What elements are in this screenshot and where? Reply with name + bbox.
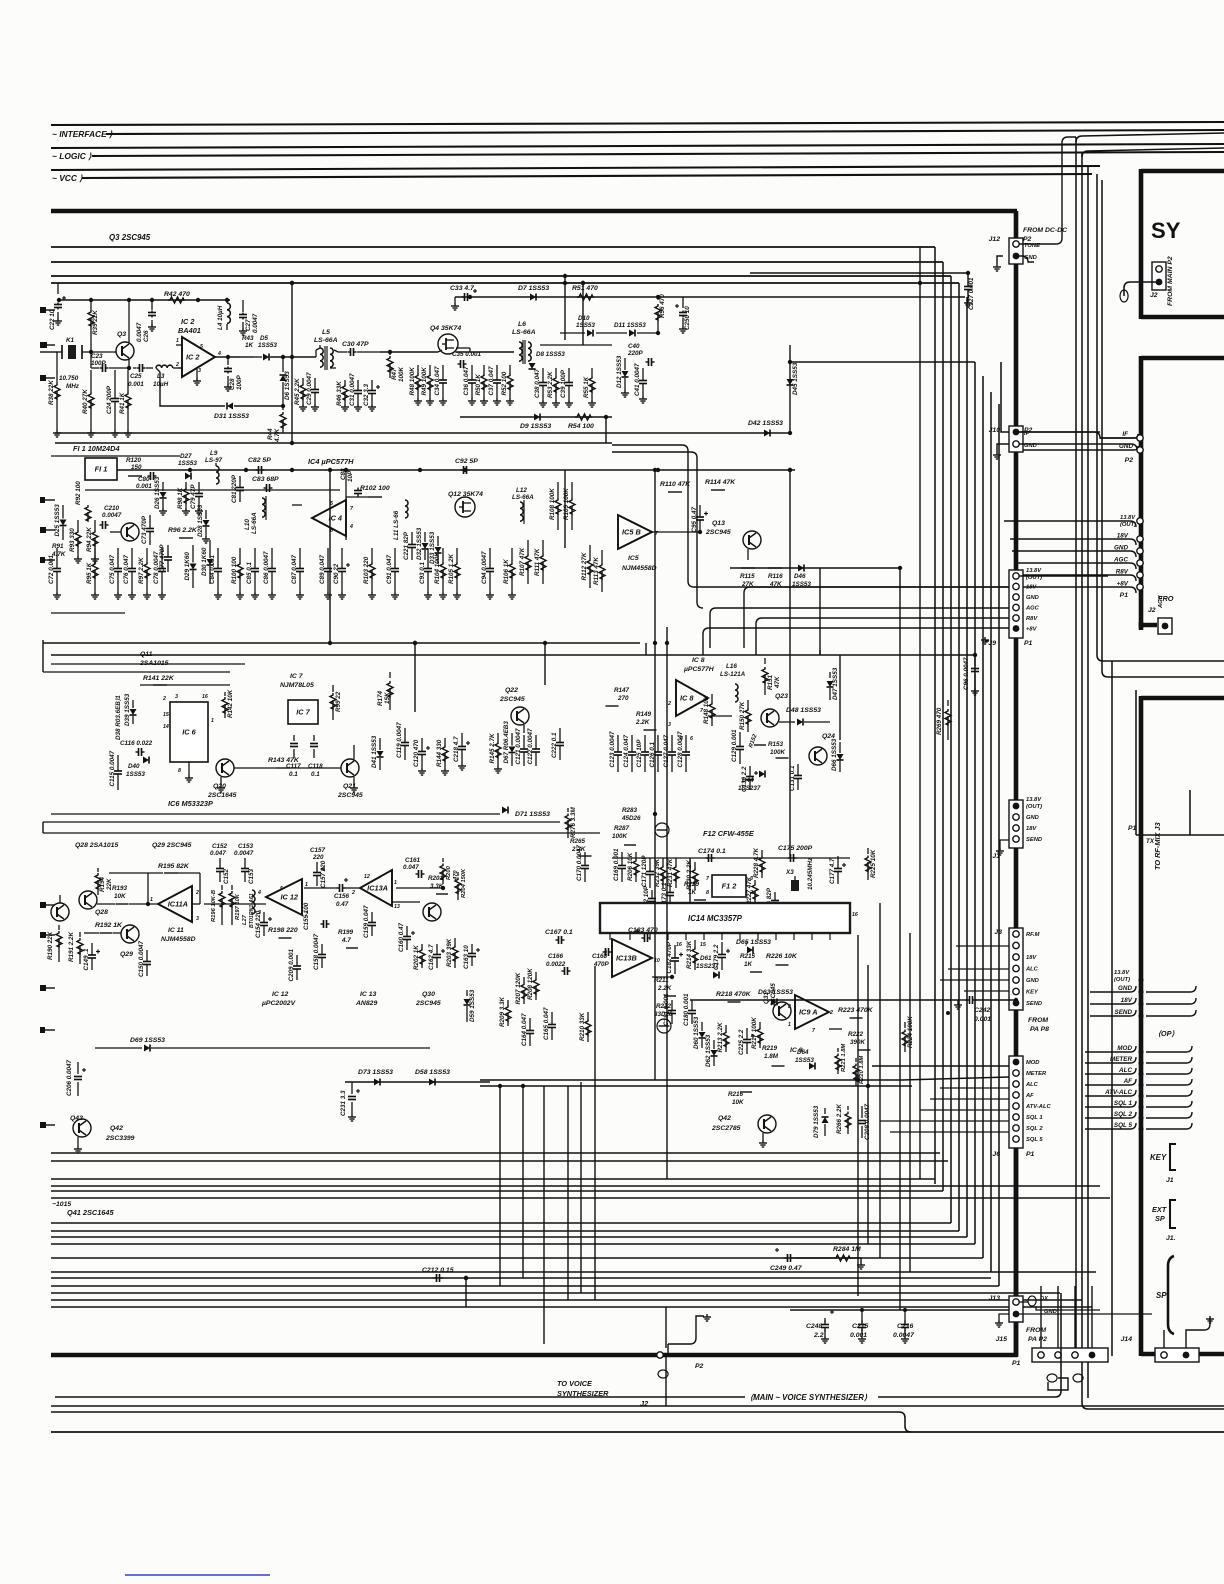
svg-text:MOD: MOD bbox=[1117, 1045, 1132, 1052]
svg-text:C94 0.0047: C94 0.0047 bbox=[481, 551, 488, 584]
svg-text:IC5: IC5 bbox=[628, 555, 639, 562]
svg-text:C210: C210 bbox=[104, 505, 120, 512]
svg-text:GND: GND bbox=[1118, 985, 1132, 992]
svg-text:1SS53: 1SS53 bbox=[178, 460, 197, 467]
svg-text:C26: C26 bbox=[143, 330, 150, 342]
transistor Q11 2SA1015 bbox=[121, 523, 139, 541]
capacitor C72 0.001 bbox=[56, 548, 58, 568]
resistor R200 470 bbox=[442, 858, 444, 862]
svg-text:100K: 100K bbox=[612, 833, 628, 840]
svg-text:1: 1 bbox=[305, 882, 308, 888]
svg-text:LS-121A: LS-121A bbox=[720, 671, 746, 678]
wire bottom bus 15 bbox=[51, 1306, 1092, 1308]
svg-text:D11 1SS53: D11 1SS53 bbox=[614, 322, 646, 329]
svg-text:IC 12: IC 12 bbox=[272, 991, 289, 998]
svg-text:2SC945: 2SC945 bbox=[705, 529, 731, 536]
wire to C227 bbox=[750, 272, 968, 274]
svg-text:SQL 5: SQL 5 bbox=[1114, 1122, 1133, 1129]
svg-text:0.0047: 0.0047 bbox=[252, 313, 259, 333]
wire lower bus lines bbox=[51, 612, 125, 614]
resistor R196 10K-B bbox=[221, 885, 223, 890]
capacitor C177 4.7 bbox=[837, 856, 839, 868]
op-amp IC9A bbox=[795, 995, 829, 1029]
svg-text:LS-66A: LS-66A bbox=[512, 329, 536, 336]
svg-text:R144 330: R144 330 bbox=[436, 739, 443, 767]
svg-text:2.2K: 2.2K bbox=[635, 719, 650, 726]
svg-text:R201: R201 bbox=[428, 875, 444, 882]
svg-text:R94 22K: R94 22K bbox=[86, 527, 93, 552]
svg-text:18V: 18V bbox=[1121, 997, 1133, 1004]
wire 1310 bbox=[790, 1309, 1009, 1311]
svg-text:Q29: Q29 bbox=[120, 951, 133, 958]
svg-text:IC 12: IC 12 bbox=[280, 893, 298, 902]
svg-text:C218 4.7: C218 4.7 bbox=[453, 736, 460, 762]
diode D59 1SS53 bbox=[466, 990, 468, 996]
svg-text:D6 1SS53: D6 1SS53 bbox=[284, 371, 291, 400]
svg-text:D45 1SS53: D45 1SS53 bbox=[792, 362, 799, 395]
svg-text:2: 2 bbox=[162, 696, 166, 702]
capacitor C76 0.047 bbox=[131, 548, 133, 568]
svg-text:R92 100: R92 100 bbox=[75, 481, 82, 505]
wire vnet 19 bbox=[543, 1086, 545, 1344]
capacitor C95 0.47 bbox=[699, 505, 701, 517]
wire vnet 13 bbox=[879, 903, 881, 1258]
svg-text:R55 1K: R55 1K bbox=[583, 376, 590, 398]
svg-text:1.8M: 1.8M bbox=[764, 1053, 779, 1060]
wire J9 pin left wires bbox=[744, 587, 1009, 648]
capacitor C38 0.047 bbox=[542, 368, 544, 382]
svg-text:J6: J6 bbox=[992, 1151, 1000, 1158]
diode D47 1SS53 bbox=[829, 672, 831, 678]
svg-text:L5: L5 bbox=[322, 329, 330, 336]
capacitor C121 0.0047 bbox=[523, 735, 525, 749]
svg-text:1SS237: 1SS237 bbox=[738, 785, 761, 792]
svg-text:IC13B: IC13B bbox=[616, 954, 638, 963]
wire J2 stub bbox=[1124, 282, 1159, 296]
svg-text:C157 220: C157 220 bbox=[320, 860, 327, 888]
wire routing channel v5 bbox=[966, 297, 968, 1237]
svg-text:L27: L27 bbox=[242, 914, 248, 925]
wire thick bottom bus continues bbox=[1014, 1148, 1019, 1296]
transistor Q30 2SC945 bbox=[423, 903, 441, 921]
svg-text:NJM4558D: NJM4558D bbox=[622, 565, 657, 572]
wire GND J12 bbox=[1016, 256, 1034, 262]
capacitor C157 220 bbox=[316, 862, 318, 872]
svg-text:R108 100K: R108 100K bbox=[549, 488, 556, 520]
svg-text:R191 2.2K: R191 2.2K bbox=[68, 931, 75, 962]
svg-text:10.245MHz: 10.245MHz bbox=[807, 857, 814, 890]
svg-text:D25 1SS53: D25 1SS53 bbox=[54, 504, 61, 537]
wire long vertical B bbox=[1082, 152, 1224, 1409]
svg-text:C242: C242 bbox=[974, 1007, 991, 1014]
resistor R109 100K bbox=[571, 482, 573, 498]
svg-text:R192 1K: R192 1K bbox=[95, 922, 123, 929]
inductor L4 10uH bbox=[226, 300, 228, 303]
svg-text:D65 1SS53: D65 1SS53 bbox=[736, 939, 771, 946]
wire routing channel v7 bbox=[982, 376, 984, 1258]
svg-text:D26 1SS53: D26 1SS53 bbox=[154, 476, 161, 509]
svg-text:R102 100: R102 100 bbox=[360, 485, 390, 492]
capacitor C118 0.1 bbox=[313, 735, 315, 741]
resistor R107 47K bbox=[527, 540, 529, 554]
capacitor C181 0.001 bbox=[671, 1000, 673, 1010]
svg-text:2SC3399: 2SC3399 bbox=[105, 1135, 135, 1142]
diode D12 1SS53 bbox=[624, 358, 626, 370]
capacitor C78 0.0047 bbox=[161, 548, 163, 568]
svg-text:J1: J1 bbox=[992, 853, 1000, 860]
unit box 3 left bbox=[1139, 696, 1144, 1356]
resistor R97 2.2K bbox=[146, 548, 148, 562]
wire y362 to channel bbox=[790, 361, 975, 363]
capacitor C75 0.047 bbox=[117, 548, 119, 568]
wire long vertical B top bend bbox=[1082, 148, 1224, 157]
diode D62 1SS53 bbox=[713, 1040, 715, 1049]
wire bottom bus 3 bbox=[51, 1190, 943, 1192]
svg-text:8: 8 bbox=[178, 768, 181, 774]
svg-text:IC 7: IC 7 bbox=[290, 673, 304, 680]
capacitor C173 0.1 bbox=[669, 884, 671, 892]
svg-text:3: 3 bbox=[258, 910, 261, 916]
resistor R191 2.2K bbox=[79, 932, 81, 937]
resistor R204 150K bbox=[457, 872, 459, 876]
svg-text:D5: D5 bbox=[260, 335, 269, 342]
svg-text:K1: K1 bbox=[66, 337, 75, 344]
svg-text:D66 1SS53: D66 1SS53 bbox=[831, 738, 838, 771]
resistor R228 4.7K bbox=[761, 850, 763, 856]
wire vnet 1 bbox=[329, 470, 331, 643]
wire signal y357 to L5 bbox=[292, 356, 316, 358]
resistor R49 100K bbox=[429, 365, 431, 374]
svg-text:C124 0.047: C124 0.047 bbox=[623, 734, 630, 767]
svg-text:2.2K: 2.2K bbox=[657, 985, 672, 992]
svg-text:13.8V: 13.8V bbox=[1026, 568, 1042, 574]
wire y1161 bbox=[51, 1160, 948, 1162]
pin circles on box2 edge 2 bbox=[1137, 536, 1143, 542]
resistor R46 33K bbox=[344, 380, 346, 384]
resistor R44 4.7K bbox=[282, 406, 284, 410]
resistor R197 10K bbox=[231, 885, 233, 890]
capacitor C227 0.001 bbox=[967, 273, 969, 283]
capacitor C90 22 bbox=[341, 548, 343, 568]
svg-text:1: 1 bbox=[788, 1022, 791, 1028]
svg-text:C222 0.1: C222 0.1 bbox=[551, 732, 558, 758]
wire vnet 20 bbox=[567, 1086, 569, 1300]
resistor R207 120K bbox=[523, 977, 525, 983]
svg-text:R115: R115 bbox=[740, 573, 755, 580]
svg-text:IC 8: IC 8 bbox=[680, 694, 694, 703]
svg-text:FI 1 10M24D4: FI 1 10M24D4 bbox=[73, 444, 120, 453]
svg-text:2SC945: 2SC945 bbox=[415, 1000, 441, 1007]
svg-text:C40: C40 bbox=[628, 343, 640, 350]
resistor R144 330 bbox=[444, 738, 446, 745]
capacitor C208 0.0047 bbox=[861, 1106, 863, 1118]
svg-text:6: 6 bbox=[690, 736, 693, 742]
svg-text:R208 120K: R208 120K bbox=[527, 968, 534, 1000]
svg-text:R105 1.2K: R105 1.2K bbox=[448, 553, 455, 584]
svg-text:PA P8: PA P8 bbox=[1030, 1026, 1049, 1033]
svg-text:SY: SY bbox=[1151, 218, 1181, 243]
svg-text:LS-97: LS-97 bbox=[205, 457, 223, 464]
svg-text:P2: P2 bbox=[1125, 457, 1134, 464]
capacitor C120 470 bbox=[421, 738, 423, 751]
svg-text:C75 0.047: C75 0.047 bbox=[109, 554, 116, 584]
diode D32 1SS53 bbox=[424, 532, 426, 542]
svg-text:−1015: −1015 bbox=[52, 1201, 71, 1208]
diode D29 1K60 bbox=[192, 545, 194, 563]
svg-text:0.1: 0.1 bbox=[311, 771, 320, 778]
svg-text:R50 1K: R50 1K bbox=[475, 374, 482, 396]
svg-text:C227 0.001: C227 0.001 bbox=[968, 277, 975, 310]
resistor R224 100K bbox=[904, 1022, 906, 1028]
svg-text:FI 1: FI 1 bbox=[95, 465, 108, 474]
op-amp IC8 bbox=[676, 680, 708, 716]
svg-text:2SC2785: 2SC2785 bbox=[711, 1125, 741, 1132]
svg-text:C123 0.0047: C123 0.0047 bbox=[609, 731, 616, 768]
wire bottom bus 14 bbox=[51, 1299, 1082, 1301]
wire routing channel v4 bbox=[958, 283, 960, 1231]
wire - top bus line 3 bbox=[51, 166, 1100, 170]
svg-text:R212: R212 bbox=[656, 1003, 672, 1010]
wire - top bus line 1 bbox=[51, 122, 1224, 125]
svg-text:8: 8 bbox=[788, 1004, 791, 1010]
svg-text:D28 1SS53: D28 1SS53 bbox=[197, 504, 204, 537]
svg-text:D9 1SS53: D9 1SS53 bbox=[520, 423, 551, 430]
svg-text:R219: R219 bbox=[762, 1045, 778, 1052]
resistor R95 1K bbox=[94, 548, 96, 562]
svg-text:D60 1SS53: D60 1SS53 bbox=[693, 1016, 700, 1049]
svg-text:FROM MAIN P2: FROM MAIN P2 bbox=[1167, 256, 1174, 306]
capacitor C221 82P bbox=[411, 532, 413, 544]
svg-text:(OUT): (OUT) bbox=[1026, 804, 1042, 810]
svg-text:15: 15 bbox=[700, 942, 706, 948]
svg-text:MOD: MOD bbox=[1026, 1060, 1039, 1066]
IC6 box M53323P bbox=[170, 702, 208, 762]
svg-text:2.2: 2.2 bbox=[813, 1332, 824, 1339]
capacitor C27 0.0047 bbox=[242, 300, 244, 312]
wire y297 extension right bbox=[683, 296, 965, 298]
wire y1080 bbox=[480, 1079, 902, 1081]
svg-text:Q29 2SC945: Q29 2SC945 bbox=[152, 842, 192, 849]
resistor R231 47K bbox=[675, 858, 677, 865]
svg-text:IC 7: IC 7 bbox=[296, 708, 310, 717]
svg-text:16: 16 bbox=[852, 912, 858, 918]
unit box 2 bottom jog bbox=[1141, 622, 1157, 628]
resistor R217 100K bbox=[759, 1022, 761, 1027]
svg-text:0.047: 0.047 bbox=[210, 850, 226, 857]
svg-text:D40: D40 bbox=[128, 763, 140, 770]
connector J1 bbox=[1009, 800, 1023, 848]
svg-text:D12 1SS53: D12 1SS53 bbox=[616, 355, 623, 388]
svg-text:2: 2 bbox=[351, 890, 355, 896]
capacitor C31 0.0047 bbox=[357, 380, 359, 390]
capacitor C242 0.001 bbox=[975, 999, 1016, 1001]
svg-text:R40 27K: R40 27K bbox=[82, 389, 89, 414]
svg-text:J3: J3 bbox=[994, 929, 1002, 936]
capacitor C152 bbox=[219, 858, 221, 868]
capacitor C164 0.047 bbox=[529, 1018, 531, 1030]
capacitor C115 0.0047 bbox=[117, 755, 119, 771]
svg-text:1SS53: 1SS53 bbox=[792, 581, 811, 588]
resistor R209 3.3K bbox=[507, 1000, 509, 1005]
svg-text:L10: L10 bbox=[244, 519, 251, 530]
svg-text:MHz: MHz bbox=[66, 383, 80, 390]
svg-text:J13: J13 bbox=[989, 1295, 1001, 1302]
svg-text:D42 1SS53: D42 1SS53 bbox=[748, 420, 783, 427]
svg-text:4.7K: 4.7K bbox=[51, 551, 66, 558]
svg-text:µPC2002V: µPC2002V bbox=[261, 1000, 297, 1007]
ground J13 bbox=[999, 1314, 1009, 1320]
wire vertical x790 with D45 bbox=[789, 345, 791, 433]
svg-text:220: 220 bbox=[312, 854, 324, 861]
svg-text:TO RF-MIX J3: TO RF-MIX J3 bbox=[1153, 822, 1162, 870]
resistor R208 120K bbox=[535, 972, 537, 978]
svg-text:LS-66A: LS-66A bbox=[314, 337, 338, 344]
resistor R145 2.7K bbox=[497, 733, 499, 742]
svg-text:KEY: KEY bbox=[1150, 1153, 1167, 1162]
svg-text:R95 1K: R95 1K bbox=[86, 562, 93, 584]
capacitor C28 100P bbox=[227, 357, 229, 365]
svg-text:220P: 220P bbox=[627, 350, 644, 357]
capacitor C93 0.1 bbox=[427, 548, 429, 568]
svg-text:C88: C88 bbox=[340, 468, 347, 480]
svg-text:C169 0.001: C169 0.001 bbox=[613, 848, 620, 881]
svg-text:C23: C23 bbox=[91, 353, 103, 360]
svg-text:D44: D44 bbox=[742, 777, 754, 784]
capacitor C159 0.047 bbox=[371, 912, 373, 922]
svg-text:C89 0.047: C89 0.047 bbox=[319, 554, 326, 584]
svg-text:AF: AF bbox=[1123, 1078, 1133, 1085]
svg-text:R43: R43 bbox=[242, 335, 254, 342]
wire bottom bus 2 bbox=[51, 1185, 1100, 1187]
capacitor C125 10P bbox=[644, 735, 646, 752]
svg-text:R47: R47 bbox=[391, 368, 398, 380]
wire bottom bus 8 bbox=[51, 1243, 975, 1245]
capacitor C225 2.2 bbox=[746, 1028, 748, 1039]
svg-text:9: 9 bbox=[604, 950, 607, 956]
svg-text:Q22: Q22 bbox=[505, 687, 518, 694]
resistor R225 10K bbox=[867, 848, 869, 854]
svg-text:3: 3 bbox=[668, 722, 671, 728]
unit box 3 top bbox=[1141, 696, 1224, 701]
svg-text:D62 1SS53: D62 1SS53 bbox=[705, 1034, 712, 1067]
svg-text:C82 5P: C82 5P bbox=[248, 457, 271, 464]
resistor R39 22K bbox=[88, 310, 94, 326]
wire vnet 24 bbox=[605, 417, 607, 443]
svg-text:R194: R194 bbox=[99, 876, 106, 892]
wire vnet 2 bbox=[414, 643, 416, 712]
svg-text:Q28: Q28 bbox=[95, 909, 108, 916]
diode D79 1SS53 bbox=[824, 1108, 826, 1114]
svg-text:GND: GND bbox=[1026, 815, 1039, 821]
capacitor C87 0.047 bbox=[299, 548, 301, 568]
wire y830 bbox=[43, 832, 600, 834]
capacitor C117 0.1 bbox=[293, 735, 295, 741]
svg-text:R200: R200 bbox=[446, 865, 452, 880]
wire bottom line 2 bbox=[51, 1405, 1224, 1407]
wire vnet 8 bbox=[789, 470, 791, 858]
capacitor C37 0.047 bbox=[496, 365, 498, 380]
svg-text:J1: J1 bbox=[1166, 1177, 1174, 1184]
svg-text:IC 13: IC 13 bbox=[360, 991, 377, 998]
connector J2b AGC bbox=[1158, 618, 1172, 634]
svg-text:C170 0.0047: C170 0.0047 bbox=[576, 844, 583, 881]
wire staircase from row C bbox=[612, 445, 1009, 587]
svg-text:FROM: FROM bbox=[1026, 1327, 1046, 1334]
svg-text:IC5 B: IC5 B bbox=[622, 528, 641, 537]
capacitor C89 0.047 bbox=[327, 548, 329, 568]
svg-text:SEND: SEND bbox=[1026, 1001, 1042, 1007]
wire J14 feeds bbox=[1163, 1330, 1165, 1348]
wire - LOGIC bus line bbox=[92, 152, 1224, 156]
svg-text:10µH: 10µH bbox=[153, 381, 169, 388]
svg-text:R213 2.2K: R213 2.2K bbox=[717, 1022, 724, 1053]
capacitor C158 0.0047 bbox=[321, 944, 323, 954]
svg-text:R153: R153 bbox=[768, 741, 784, 748]
svg-text:D30 1K60: D30 1K60 bbox=[201, 547, 208, 576]
svg-text:10K: 10K bbox=[114, 893, 126, 900]
right pill stack wires bbox=[1004, 521, 1136, 527]
unit box 3 bottom bbox=[1141, 1352, 1224, 1357]
svg-text:C128 0.0047: C128 0.0047 bbox=[677, 731, 684, 768]
svg-text:D67 R06.4EB3: D67 R06.4EB3 bbox=[503, 721, 510, 764]
svg-text:F12 CFW-455E: F12 CFW-455E bbox=[703, 829, 755, 838]
resistor R210 33K bbox=[587, 1012, 589, 1019]
wire J13 GND right bbox=[1019, 1313, 1152, 1315]
svg-text:D38 R03.6EB⟩1: D38 R03.6EB⟩1 bbox=[115, 695, 122, 740]
wire long vertical A bbox=[1075, 137, 1077, 1356]
svg-text:D8 1SS53: D8 1SS53 bbox=[536, 351, 565, 358]
wire C212 vertical bbox=[465, 1278, 467, 1307]
svg-text:C90 22: C90 22 bbox=[333, 563, 340, 584]
svg-text:0.0047: 0.0047 bbox=[102, 512, 122, 519]
capacitor C248 2.2 bbox=[830, 1311, 834, 1313]
svg-text:R112 27K: R112 27K bbox=[581, 552, 588, 580]
svg-text:R287: R287 bbox=[614, 825, 630, 832]
wire bus a bbox=[51, 246, 935, 248]
svg-text:D59 1SS53: D59 1SS53 bbox=[469, 989, 476, 1022]
wire bus c bbox=[51, 275, 951, 277]
svg-text:R218 470K: R218 470K bbox=[716, 991, 752, 998]
svg-text:C96 0.0047: C96 0.0047 bbox=[963, 657, 970, 690]
svg-text:C120 470: C120 470 bbox=[413, 739, 420, 767]
svg-text:IC 6: IC 6 bbox=[182, 728, 196, 737]
synthesizer unit box left bbox=[1139, 169, 1144, 319]
resistor R111 47K bbox=[542, 540, 544, 554]
capacitor C122 0.0047 bbox=[535, 735, 537, 749]
svg-text:C221 82P: C221 82P bbox=[403, 531, 410, 560]
svg-text:C225 2.2: C225 2.2 bbox=[738, 1029, 745, 1055]
svg-text:R204 150K: R204 150K bbox=[461, 868, 467, 898]
svg-text:SEND: SEND bbox=[1026, 837, 1042, 843]
capacitor C206 0.0047 bbox=[77, 1062, 79, 1074]
wire left stub y352 bbox=[40, 351, 51, 353]
inductor L27 BT01RN1-A61 bbox=[252, 890, 255, 914]
wire routing channel v6 bbox=[974, 362, 976, 1244]
svg-text:C250 10: C250 10 bbox=[684, 306, 691, 330]
wire y1086 bbox=[480, 1085, 912, 1087]
svg-text:D47 1SS53: D47 1SS53 bbox=[832, 667, 839, 700]
svg-text:R222: R222 bbox=[848, 1031, 864, 1038]
diode D26 1SS53 bbox=[162, 482, 164, 491]
wire J6 pin stubs bbox=[940, 1087, 1009, 1089]
svg-text:18V: 18V bbox=[1026, 826, 1037, 832]
capacitor C126 0.1 bbox=[657, 735, 659, 752]
svg-text:R44: R44 bbox=[267, 428, 274, 440]
svg-text:D39 1SS53: D39 1SS53 bbox=[124, 693, 131, 726]
svg-text:27K: 27K bbox=[741, 581, 754, 588]
capacitor C165 0.047 bbox=[551, 1012, 553, 1024]
wire routing channel v1 bbox=[934, 247, 936, 1184]
